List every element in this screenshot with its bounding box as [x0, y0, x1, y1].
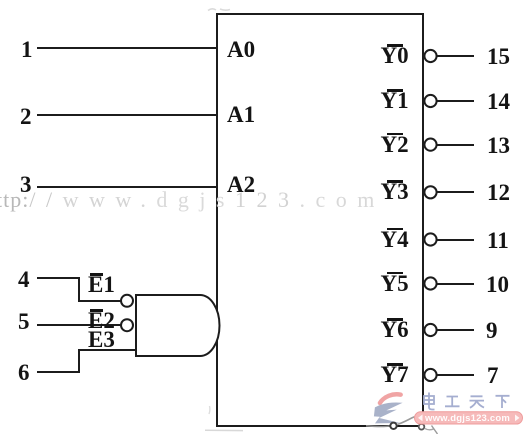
svg-text:www.dgjs123.com: www.dgjs123.com — [424, 413, 510, 424]
